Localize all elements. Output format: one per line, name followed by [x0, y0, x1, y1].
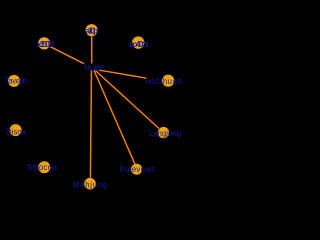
- wire hub to node A: [50, 47, 93, 69]
- wire hub to node B: [91, 36, 93, 64]
- node F label background: [147, 77, 183, 86]
- svg-text:Langjung: Langjung: [149, 129, 181, 138]
- node C circle: [132, 36, 144, 48]
- node A circle: [38, 37, 50, 49]
- node J circle: [131, 164, 142, 175]
- wire hub to node F: [94, 69, 163, 81]
- wire hub to node J: [93, 69, 135, 165]
- node E hub label background: [84, 63, 100, 70]
- svg-text:Disoa: Disoa: [6, 127, 27, 136]
- node B circle: [86, 24, 98, 36]
- node E hub label underline: [90, 69, 99, 71]
- svg-text:Sibocrat: Sibocrat: [27, 163, 58, 172]
- node I circle: [38, 161, 50, 173]
- node G circle: [10, 124, 22, 136]
- svg-text:mliOhudß: mliOhudß: [145, 77, 182, 86]
- svg-text:no40O: no40O: [129, 39, 149, 49]
- wire hub to node H: [93, 69, 159, 129]
- node D circle: [8, 75, 20, 87]
- svg-text:Tavelin: Tavelin: [5, 77, 28, 86]
- node K circle: [84, 178, 96, 190]
- wire hub to node K: [90, 69, 91, 178]
- svg-text:a10þ: a10þ: [86, 26, 99, 36]
- svg-text:Mahjung: Mahjung: [73, 180, 107, 189]
- node F circle: [162, 75, 174, 87]
- node H circle: [158, 127, 169, 138]
- svg-text:x150D: x150D: [37, 39, 54, 49]
- svg-text:Pulevoait: Pulevoait: [120, 165, 155, 174]
